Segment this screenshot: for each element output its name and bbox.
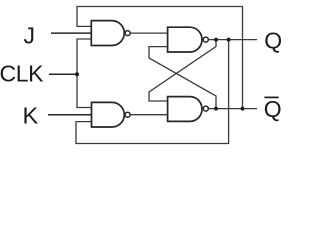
svg-text:Q: Q — [264, 27, 282, 53]
svg-text:Q: Q — [264, 96, 282, 122]
svg-text:J: J — [24, 23, 36, 49]
svg-text:CLK: CLK — [0, 60, 44, 86]
svg-text:K: K — [23, 103, 39, 129]
